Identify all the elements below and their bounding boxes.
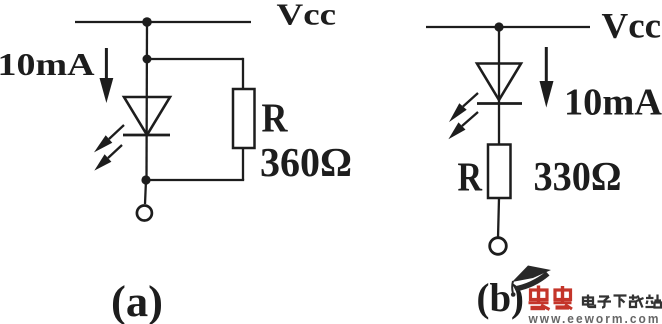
node: bottom junction J3 (a) [141,175,150,184]
watermark text: chong character 1 (red bug glyph) [529,286,550,310]
wire: vertical from J1 through LED to bottom node (a) [145,22,148,180]
resistor R (a) body [233,89,255,148]
watermark text: zhan (site) glyph [646,295,662,308]
svg-text:R: R [458,153,483,199]
svg-text:R: R [262,95,289,141]
LED D2 cathode bar (b) [477,102,522,105]
watermark text: dian (electronics) glyph [583,295,595,308]
svg-text:Vcc: Vcc [277,0,337,31]
LED light emission arrow 2 (a) [94,145,122,171]
output terminal (open circle) (a) [137,206,152,221]
wire: resistor bottom to output terminal (b) [498,198,499,238]
LED D2 anode triangle (b) [477,64,521,101]
wire: horizontal J2 to resistor branch top (a) [147,58,243,60]
output terminal (open circle) (b) [490,238,507,255]
svg-text:(a): (a) [111,277,163,324]
LED light emission arrow 1 (b) [449,93,478,122]
node: junction J2 feeding resistor branch (a) [143,55,152,64]
LED D1 cathode bar (a) [123,134,170,137]
svg-text:360Ω: 360Ω [260,139,352,185]
current arrow 10mA (a) [100,48,114,103]
LED light emission arrow 1 (a) [94,125,124,152]
wire: vertical from J4 through LED to resistor (b) [498,27,500,146]
resistor R (b) body [488,145,511,199]
svg-text:www.eeworm.com: www.eeworm.com [528,311,661,324]
svg-text:Vcc: Vcc [602,6,662,46]
wire: horizontal back to bottom junction (a) [146,179,244,181]
watermark text: zi glyph [598,297,612,308]
svg-text:(b): (b) [477,275,525,320]
watermark text: xia glyph [614,296,627,308]
watermark logo: tassel [511,281,514,293]
wire: Vcc rail circuit (a) [75,21,251,23]
wire: Vcc rail circuit (b) [426,26,590,28]
svg-text:10mA: 10mA [0,46,95,82]
wire: J3 down to output terminal (a) [145,180,146,204]
watermark logo: cap brim swoosh [514,272,550,292]
wire: vertical down to resistor R top (a) [242,58,244,89]
node: junction J1 on Vcc rail (a) [142,17,152,27]
svg-text:330Ω: 330Ω [534,153,622,199]
current arrow 10mA (b) [540,47,554,108]
node: junction J4 on Vcc rail (b) [494,22,503,31]
LED light emission arrow 2 (b) [448,112,478,139]
svg-text:10mA: 10mA [564,82,662,124]
wire: resistor R bottom down (a) [242,148,244,180]
watermark text: chong character 2 (red bug glyph) [554,286,573,309]
LED D1 anode triangle (a) [124,97,170,135]
watermark text: zai (download) glyph [629,295,644,308]
watermark logo: graduation cap board [512,266,551,283]
